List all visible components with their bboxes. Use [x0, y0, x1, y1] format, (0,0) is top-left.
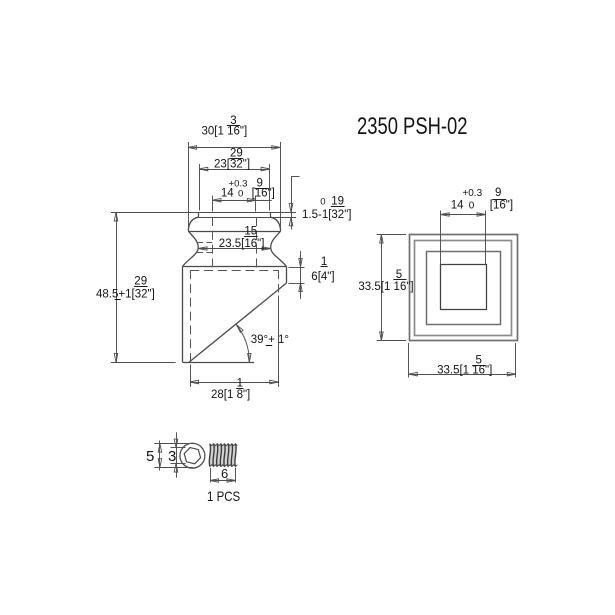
svg-text:+0.3: +0.3	[462, 188, 482, 199]
svg-text:48.5+1[32"]: 48.5+1[32"]	[96, 288, 155, 300]
svg-text:6: 6	[221, 466, 228, 481]
svg-text:[16"]: [16"]	[252, 188, 275, 200]
svg-text:9: 9	[495, 187, 501, 199]
svg-text:0: 0	[238, 189, 243, 200]
svg-text:3: 3	[168, 448, 176, 465]
svg-text:14: 14	[451, 200, 464, 212]
svg-text:28[1 8"]: 28[1 8"]	[211, 389, 250, 401]
svg-text:0: 0	[469, 201, 475, 212]
svg-text:33.5[1 16"]: 33.5[1 16"]	[437, 365, 492, 377]
svg-text:30[1 16"]: 30[1 16"]	[202, 126, 248, 138]
svg-text:1.5-1[32"]: 1.5-1[32"]	[302, 209, 351, 221]
svg-text:[16"]: [16"]	[490, 200, 513, 212]
svg-text:23.5[16"]: 23.5[16"]	[219, 238, 265, 250]
svg-text:29: 29	[134, 276, 147, 288]
svg-text:0: 0	[320, 197, 325, 208]
svg-text:1 PCS: 1 PCS	[207, 488, 240, 504]
svg-text:6[4"]: 6[4"]	[311, 271, 334, 283]
svg-text:14: 14	[221, 188, 234, 200]
svg-text:5: 5	[396, 269, 402, 281]
svg-text:39°+ 1°: 39°+ 1°	[251, 334, 289, 346]
svg-text:15: 15	[244, 226, 257, 238]
svg-text:1: 1	[237, 378, 243, 390]
svg-text:23[32"]: 23[32"]	[214, 159, 250, 171]
svg-text:5: 5	[146, 448, 154, 465]
svg-text:2350 PSH-02: 2350 PSH-02	[357, 113, 468, 140]
svg-text:19: 19	[331, 196, 344, 208]
svg-text:33.5[1 16"]: 33.5[1 16"]	[358, 281, 413, 293]
